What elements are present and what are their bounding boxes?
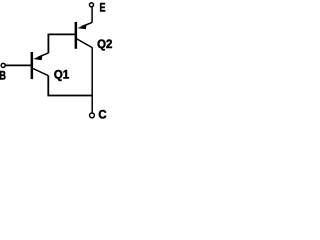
Q1 collector lead [33,69,48,76]
foot serif of digit 1 [65,77,69,78]
Q2 emitter arrow (PNP, into base) [78,24,87,29]
wire B to Q1 base [6,64,31,66]
Q2 emitter lead [82,22,92,26]
svg-text:Q1: Q1 [54,68,70,81]
wire Q2 emitter to E [91,7,93,22]
terminal E [89,3,93,7]
wire Q1 collector to C node [48,76,92,96]
transistor Q2 [76,22,92,49]
terminal C [90,113,95,118]
svg-text:Q2: Q2 [97,38,112,51]
svg-text:B: B [0,69,6,83]
Q1 emitter lead [38,53,48,57]
svg-text:C: C [98,108,106,122]
svg-text:E: E [100,1,106,15]
wire Q1 emitter to Q2 base [48,34,74,53]
Q1 base bar [31,52,34,79]
Q2 base bar [75,22,78,49]
Q1 emitter arrow (PNP, into base) [33,55,42,60]
transistor Q1 [32,52,49,79]
Q2 collector lead [77,39,92,48]
terminal B [1,63,5,67]
wire Q2 collector down to C [91,47,93,112]
